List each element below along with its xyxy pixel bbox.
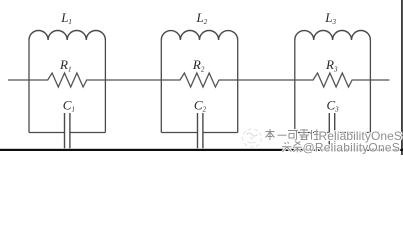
wire bottom right tank1 <box>70 132 106 134</box>
wire bottom right tank2 <box>203 132 238 134</box>
wire right vertical tank2 <box>237 40 239 133</box>
inductor L3 <box>295 31 371 40</box>
inductor L2 <box>161 30 237 40</box>
wire bottom right tank3 <box>335 132 371 134</box>
capacitor C3 <box>328 113 330 148</box>
wire left vertical tank1 <box>28 40 30 133</box>
inductor L1 <box>29 30 105 40</box>
wire right vertical tank1 <box>104 40 106 133</box>
watermark icon <box>243 129 262 147</box>
wire right vertical tank3 <box>369 40 371 133</box>
watermark line2 CJK glyphs (approx) <box>282 142 302 153</box>
capacitor C1 <box>64 113 66 148</box>
watermark line1 CJK glyphs (approx) <box>266 129 320 140</box>
wire bottom left tank2 <box>161 132 197 134</box>
wire bottom left tank3 <box>295 132 330 134</box>
bottom border line <box>0 149 403 151</box>
svg-text:@ReliabilityOneS: @ReliabilityOneS <box>303 141 400 155</box>
wire main horizontal bus with resistor zigzags R1 R2 R3 <box>8 73 390 87</box>
wire bottom left tank1 <box>29 132 65 134</box>
capacitor C2 <box>197 113 199 148</box>
wire left vertical tank2 <box>160 40 162 133</box>
wire left vertical tank3 <box>294 40 296 133</box>
right border line <box>401 0 403 155</box>
